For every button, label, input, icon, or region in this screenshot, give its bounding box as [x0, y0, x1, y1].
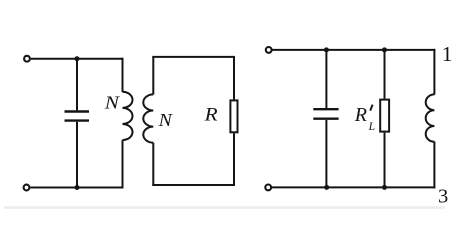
terminal T3 (right circuit, top input) [266, 47, 272, 53]
resistor R (box) [230, 100, 237, 132]
wire bottom-left horizontal [30, 187, 122, 189]
wire primary upper lead [122, 58, 124, 92]
junction node (RL bottom) [382, 185, 387, 190]
wire R upper lead [233, 57, 235, 100]
transformer secondary winding N [143, 94, 153, 142]
wire secondary upper lead [152, 57, 154, 95]
terminal T2 (left circuit, bottom input) [24, 185, 30, 191]
wire RL upper lead [384, 50, 386, 99]
wire top-left horizontal [31, 58, 123, 60]
junction node (RL top) [382, 47, 387, 52]
wire capacitor upper lead (right circuit) [325, 50, 327, 108]
svg-text:N: N [158, 110, 173, 130]
svg-text:L: L [368, 121, 375, 133]
junction node (cap bottom, right circuit) [324, 185, 329, 190]
wire bottom horizontal (right circuit) [272, 186, 435, 188]
wire capacitor lower lead [76, 122, 78, 188]
wire secondary loop top [152, 56, 235, 58]
svg-text:3: 3 [438, 185, 448, 207]
wire primary lower lead [122, 140, 124, 188]
wire capacitor lower lead (right circuit) [325, 120, 327, 187]
svg-text:N: N [104, 92, 121, 112]
svg-text:R: R [354, 104, 367, 126]
capacitor C (left circuit) [65, 112, 90, 121]
transformer primary winding N [123, 92, 133, 140]
wire R lower lead [233, 133, 235, 186]
wire capacitor upper lead [76, 59, 78, 111]
terminal T4 (right circuit, bottom input) [265, 185, 271, 191]
junction node (cap top, left circuit) [75, 56, 80, 61]
wire top horizontal (right circuit) [273, 49, 436, 51]
resistor R'L (box) [380, 100, 389, 132]
terminal T1 (left circuit, top input) [24, 56, 30, 62]
wire inductor upper lead (right circuit) [433, 49, 435, 95]
svg-text:R: R [204, 105, 219, 126]
wire inductor lower lead (right circuit) [433, 142, 435, 189]
capacitor C (right circuit) [313, 109, 338, 119]
label R'L [354, 104, 375, 133]
junction node (cap top, right circuit) [324, 47, 329, 52]
wire RL lower lead [384, 133, 386, 188]
wire secondary lower lead [152, 143, 154, 186]
svg-text:1: 1 [442, 42, 453, 66]
wire secondary loop bottom [152, 184, 235, 186]
junction node (cap bottom, left circuit) [75, 185, 80, 190]
inductor L (right circuit) [426, 94, 435, 141]
